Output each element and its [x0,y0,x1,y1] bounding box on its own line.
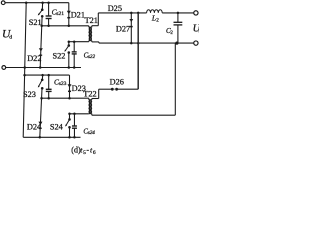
svg-text:d: d [9,35,12,41]
transformer T21 primary winding [89,27,92,40]
capacitor Cs22 [73,42,75,52]
node R2 / C2 and return [175,42,178,45]
capacitor C2 [177,13,179,22]
svg-text:-: - [86,145,89,154]
svg-text:s22: s22 [88,54,96,60]
node M1 / Cs21 [47,25,50,28]
wire rail H4 [23,136,80,138]
node left rail / H3 rail [23,74,26,77]
wire rail P2 [70,113,89,115]
svg-text:D22: D22 [27,54,41,63]
switch S21 [41,3,43,10]
wire mid rail M1 [42,25,89,27]
input terminal + (top) [1,1,5,5]
diode D26 [99,88,113,90]
wire rail H3 [25,74,70,76]
node top rail / Cs21 [47,1,50,4]
wire mid rail M2 [42,97,89,99]
node R1 / D27 [130,12,133,15]
node P1 / Cs22 [73,40,76,43]
wire rail H2 [6,67,81,69]
wire T22 secondary bottom lead [91,114,93,116]
node D26 anode [111,88,114,91]
output terminal - [194,41,198,45]
node R1 / D25 link [137,12,140,15]
switch S24 [69,114,71,120]
wire D25 link [137,13,139,43]
svg-text:s24: s24 [88,129,96,136]
node R2 / D25 link [137,42,140,45]
svg-text:s21: s21 [56,11,64,17]
node M2 / S23 [40,97,43,100]
switch S23 [41,75,43,80]
svg-text:2: 2 [156,18,159,24]
node M1 / S21 [40,25,43,28]
svg-text:S24: S24 [50,123,64,132]
node R1 / C2 [177,12,180,15]
node H4 / Cs24 [73,136,76,139]
inductor L2 [147,10,163,13]
transformer T21 secondary winding [89,27,92,40]
svg-text:D21: D21 [71,10,85,19]
node H2 / Cs22 [73,66,76,69]
node R2 / D27 [130,42,133,45]
wire T21 secondary top lead [91,26,93,28]
node left rail / input minus [24,66,27,69]
wire T21 secondary bottom lead [91,41,93,42]
diode D27 [130,13,132,43]
svg-text:D26: D26 [110,77,124,86]
node M2 / D23 [68,97,71,100]
node H2 / D22 [39,66,42,69]
svg-text:D27: D27 [116,24,130,33]
svg-text:T22: T22 [83,89,96,98]
diode D23 [69,75,71,98]
switch S22 [68,42,70,46]
node D26 cathode [115,88,118,91]
wire top rail [5,2,69,4]
svg-text:D24: D24 [27,123,42,132]
svg-text:S23: S23 [23,90,36,99]
node H4 / S24 [68,136,71,139]
wire left rail [23,3,26,138]
node H2 / S22 [68,66,71,69]
wire rail R1 [98,12,146,14]
transformer T21 core [89,27,91,42]
svg-text:D25: D25 [108,4,122,13]
wire D26 riser [137,43,139,89]
diode D21 [68,3,70,26]
capacitor Cs24 [73,114,75,126]
svg-text:S22: S22 [53,52,66,61]
svg-text:T21: T21 [85,16,98,25]
wire rail P1 [69,41,89,43]
input terminal - (bottom) [2,66,6,70]
wire T22 secondary top lead [91,99,93,100]
capacitor Cs23 [48,75,50,89]
transformer T22 primary winding [89,100,92,114]
output terminal + [194,11,198,15]
node top rail / S21 [41,1,44,4]
capacitor Cs21 [48,3,50,16]
transformer T22 core [89,99,91,114]
node P2 / Cs24 [73,113,76,116]
node H3 / S23 [41,74,44,77]
node H3 / Cs23 [47,74,50,77]
svg-text:L: L [151,14,156,23]
node H4 / D24 [39,136,42,139]
svg-text:S21: S21 [29,18,42,27]
node P1 / S22 [68,40,71,43]
svg-text:6: 6 [93,150,96,156]
diode D24 [40,98,42,137]
svg-text:s23: s23 [59,81,67,87]
node M2 / Cs23 [47,97,50,100]
node P2 / S24 [68,113,71,116]
node top rail / left rail [25,1,28,4]
node M1 / D21 [68,25,71,28]
diode D22 [40,26,42,68]
wire rail R2 [99,42,194,44]
transformer T22 secondary winding [89,100,92,114]
